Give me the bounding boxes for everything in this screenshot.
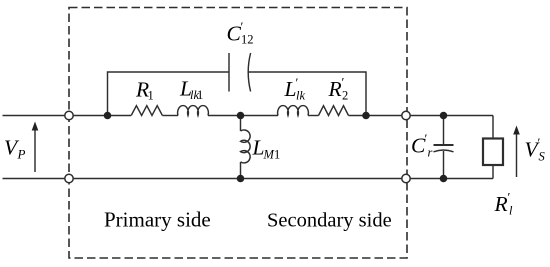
- svg-text:Primary side: Primary side: [104, 208, 211, 232]
- label R'l: [494, 190, 514, 218]
- terminal node primary top (open circle): [65, 111, 73, 119]
- junction node C'12 left: [104, 112, 112, 120]
- svg-text:R: R: [328, 77, 342, 101]
- wire between R1 and Llk1: [162, 115, 178, 117]
- wire LM1 bottom lead: [240, 162, 242, 179]
- terminal node primary bottom (open circle): [65, 174, 73, 182]
- transformer boundary dashed box: [69, 8, 407, 259]
- label R1: [135, 78, 154, 103]
- svg-text:r: r: [428, 146, 433, 160]
- wire bottom rail: [3, 178, 494, 180]
- svg-text:lk: lk: [296, 89, 305, 103]
- inductor LM1: [241, 130, 251, 163]
- svg-text:R: R: [494, 192, 508, 216]
- junction node center bottom: [237, 175, 245, 183]
- wire C'r top lead: [443, 116, 445, 145]
- svg-text:S: S: [539, 150, 546, 164]
- terminal node secondary bottom (open circle): [402, 174, 410, 182]
- resistor R'l (box): [483, 139, 503, 166]
- junction node center top: [237, 112, 245, 120]
- svg-text:l: l: [509, 204, 513, 218]
- svg-text:′: ′: [508, 190, 511, 205]
- inductor Llk1: [178, 106, 209, 116]
- wire C'12 branch left riser: [108, 72, 230, 116]
- svg-text:C: C: [227, 22, 242, 46]
- svg-text:12: 12: [241, 33, 254, 47]
- svg-text:Secondary side: Secondary side: [267, 210, 392, 232]
- wire Llk1 to center node: [208, 115, 278, 117]
- label LM1: [252, 135, 281, 161]
- svg-text:1: 1: [197, 88, 203, 102]
- label Llk1: [179, 77, 203, 103]
- label L'lk: [284, 75, 306, 103]
- capacitor C'12: [229, 53, 251, 92]
- svg-text:′: ′: [425, 131, 428, 146]
- svg-text:M: M: [263, 148, 275, 162]
- capacitor C'r: [434, 145, 454, 152]
- svg-text:1: 1: [274, 148, 280, 162]
- wire top-left segment: [3, 115, 132, 117]
- junction node C'12 right: [362, 112, 370, 120]
- svg-text:P: P: [17, 147, 26, 162]
- wire Rl bottom lead: [492, 165, 494, 179]
- svg-text:2: 2: [342, 89, 348, 103]
- terminal node secondary top (open circle): [402, 111, 410, 119]
- wire L'lk to R'2: [308, 115, 319, 117]
- wire C'12 branch right riser: [248, 72, 366, 116]
- wire top-right segment: [349, 115, 494, 117]
- label VP: [4, 136, 26, 162]
- wire Rl top lead: [492, 116, 494, 139]
- label R'2: [328, 75, 349, 103]
- svg-text:′: ′: [538, 135, 541, 150]
- label C'12: [227, 19, 254, 47]
- resistor R'2: [319, 106, 349, 116]
- label V'S: [525, 135, 546, 164]
- wire C'r bottom lead: [443, 151, 445, 179]
- junction node C'r bottom: [440, 175, 448, 183]
- svg-text:1: 1: [148, 89, 154, 103]
- inductor L'lk: [278, 106, 309, 116]
- junction node C'r top: [440, 112, 448, 120]
- arrow V'S: [513, 126, 520, 178]
- resistor R1: [131, 106, 162, 116]
- svg-text:′: ′: [342, 75, 345, 90]
- arrow VP: [32, 122, 39, 173]
- wire LM1 top lead: [240, 116, 242, 132]
- label C'r: [411, 131, 433, 160]
